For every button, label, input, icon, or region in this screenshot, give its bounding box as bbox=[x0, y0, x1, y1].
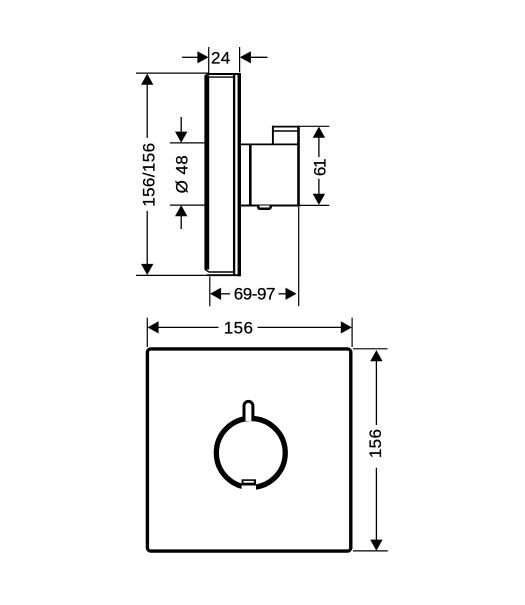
left arrow bbox=[197, 51, 208, 63]
top tail bbox=[180, 117, 182, 132]
arrow right bbox=[341, 321, 352, 333]
ext line top bbox=[298, 125, 330, 127]
line lower bbox=[146, 211, 148, 264]
ext line top bbox=[353, 348, 388, 350]
escutcheon front view bbox=[147, 349, 350, 551]
line left bbox=[159, 326, 219, 328]
plate top inner edge bbox=[209, 76, 234, 78]
line upper bbox=[375, 361, 377, 425]
body top edge bbox=[241, 143, 300, 145]
right tail bbox=[251, 56, 268, 58]
body bottom tab bbox=[258, 206, 271, 209]
plate top outer edge bbox=[209, 73, 241, 75]
arrow up bbox=[141, 74, 153, 85]
arrow right bbox=[286, 288, 297, 300]
ext tick left bbox=[146, 318, 148, 347]
line right bbox=[279, 293, 286, 295]
ext line bottom bbox=[170, 204, 204, 206]
wall plate side view bbox=[204, 73, 240, 276]
right arrow bbox=[240, 51, 251, 63]
handle ring bbox=[216, 418, 285, 487]
ext line top bbox=[136, 72, 209, 74]
svg-text:156: 156 bbox=[224, 318, 254, 337]
line right bbox=[258, 326, 341, 328]
ext line left bbox=[209, 277, 211, 307]
body sleeve divider bbox=[249, 144, 252, 205]
arrow down bbox=[141, 264, 153, 275]
svg-text:61: 61 bbox=[311, 159, 330, 176]
svg-text:24: 24 bbox=[211, 49, 231, 68]
dim 69-97 bbox=[210, 207, 299, 306]
ext line bottom bbox=[299, 204, 329, 206]
ext line bottom bbox=[136, 274, 207, 276]
arrow up bbox=[313, 127, 325, 138]
valve body side view bbox=[241, 126, 300, 209]
plate bottom outer edge bbox=[207, 274, 241, 276]
bottom tail bbox=[180, 216, 182, 229]
line left bbox=[221, 293, 230, 295]
ext line left bbox=[208, 47, 210, 73]
line upper bbox=[146, 85, 148, 138]
plate rear inner line bbox=[233, 73, 235, 276]
svg-text:156/156: 156/156 bbox=[139, 143, 158, 207]
plate right edge bbox=[238, 73, 241, 276]
arrow up to bottom bbox=[175, 205, 187, 216]
dim 61 bbox=[298, 126, 330, 205]
line upper bbox=[318, 138, 320, 158]
front dim 156 top bbox=[147, 318, 352, 347]
ext line right bbox=[239, 47, 241, 72]
arrow down to top bbox=[175, 132, 187, 143]
line lower bbox=[375, 468, 377, 540]
arrow down bbox=[313, 194, 325, 205]
plate front face (left thick band) bbox=[204, 75, 209, 269]
dim 156/156 bbox=[136, 73, 209, 275]
body bottom edge bbox=[241, 204, 300, 206]
plate front bottom chamfer bbox=[205, 269, 209, 272]
body front edge bbox=[297, 126, 300, 207]
svg-text:69-97: 69-97 bbox=[234, 285, 275, 304]
arrow left bbox=[210, 288, 221, 300]
svg-text:Ø 48: Ø 48 bbox=[173, 155, 192, 193]
line lower bbox=[318, 179, 320, 194]
ext line bottom bbox=[353, 550, 388, 552]
front dim 156 right bbox=[353, 349, 388, 551]
step inner line bbox=[273, 130, 298, 132]
bottom notch slit bbox=[243, 481, 254, 483]
square plate bbox=[147, 349, 350, 551]
svg-text:156: 156 bbox=[366, 429, 385, 459]
plate front top chamfer bbox=[205, 74, 209, 76]
left tail bbox=[182, 56, 198, 58]
arrow down bbox=[370, 540, 382, 551]
step left edge bbox=[272, 126, 274, 145]
dim 24 bbox=[182, 47, 268, 73]
handle index tab bbox=[244, 401, 253, 421]
arrow up bbox=[370, 350, 382, 361]
ext line right bbox=[298, 207, 300, 306]
ext tick right bbox=[351, 318, 353, 347]
dim Ø 48 bbox=[170, 117, 204, 229]
step top edge bbox=[272, 126, 299, 128]
plate bottom inner edge bbox=[209, 271, 234, 273]
bottom notch block bbox=[242, 485, 256, 492]
arrow left bbox=[148, 321, 159, 333]
ext line top bbox=[170, 142, 204, 144]
